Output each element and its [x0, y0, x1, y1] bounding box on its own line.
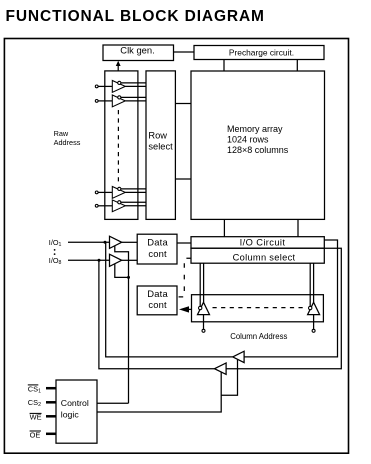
data cont box 1 — [137, 234, 177, 264]
precharge circuit box — [194, 46, 324, 60]
input WE — [30, 413, 56, 422]
junction dot I/O8 — [98, 259, 101, 262]
dashed line between address buffers — [117, 110, 119, 184]
svg-text:Control: Control — [61, 398, 89, 408]
wire data cont 1 to I/O circuit — [177, 242, 191, 244]
svg-text:CS2: CS2 — [28, 398, 41, 408]
wire memory to I/O circuit right stub — [297, 219, 299, 237]
svg-text:Column Address: Column Address — [230, 332, 287, 341]
wire column select right to output buffer B — [226, 248, 341, 369]
wire memory to I/O circuit left stub — [223, 219, 225, 237]
svg-text:Address: Address — [54, 138, 81, 147]
svg-text:WE: WE — [30, 413, 42, 422]
arrow column address to data cont 2 — [179, 306, 192, 312]
address buffer T4 — [95, 200, 146, 212]
svg-text:CS1: CS1 — [28, 384, 41, 394]
column address box — [192, 295, 324, 322]
svg-text:Row: Row — [148, 131, 167, 141]
svg-text:I/O Circuit: I/O Circuit — [240, 237, 286, 247]
dashed wire column select to data cont 2 — [178, 258, 192, 297]
column buffer C2 — [308, 263, 320, 332]
svg-text:Raw: Raw — [54, 129, 69, 138]
svg-text:Data: Data — [147, 236, 168, 247]
address buffer T3 — [95, 187, 146, 199]
svg-text:OE: OE — [30, 430, 41, 439]
dots between I/O labels — [54, 249, 56, 255]
wire row select to memory lower — [176, 178, 191, 180]
row select box — [146, 71, 175, 220]
wire tap from U2 to control line — [115, 264, 130, 279]
input CS1 — [28, 384, 56, 394]
memory array box — [191, 71, 325, 219]
address buffer T1 — [95, 81, 146, 93]
svg-text:Memory array: Memory array — [227, 124, 283, 134]
wire arrow up into clk gen — [116, 61, 121, 71]
wire I/O circuit right to output buffer A — [244, 240, 337, 357]
svg-text:cont: cont — [148, 299, 167, 310]
label Raw Address — [54, 129, 81, 147]
svg-text:Precharge circuit.: Precharge circuit. — [229, 47, 294, 57]
wire tap from U1 to control line — [115, 246, 129, 403]
svg-text:128×8 columns: 128×8 columns — [227, 145, 289, 155]
wire clkgen to precharge — [174, 51, 195, 53]
svg-text:1024 rows: 1024 rows — [227, 134, 269, 144]
svg-text:logic: logic — [61, 409, 80, 419]
column select box — [191, 248, 324, 263]
dashed line between column buffers — [213, 307, 307, 309]
output buffer B — [215, 363, 227, 374]
input buffer U1 — [110, 236, 138, 248]
svg-text:Column select: Column select — [233, 253, 296, 263]
column buffer C1 — [198, 263, 210, 332]
I/O circuit box — [191, 237, 324, 249]
wire I/O8 input — [68, 259, 110, 261]
row address buffer box — [105, 71, 138, 220]
control logic box — [56, 380, 97, 443]
svg-text:Clk gen.: Clk gen. — [120, 45, 154, 56]
wire precharge to memory right stub — [296, 60, 298, 72]
svg-text:select: select — [148, 142, 173, 152]
clock generator box — [103, 45, 174, 61]
svg-text:Data: Data — [147, 288, 168, 299]
wire row select to memory upper — [176, 103, 191, 105]
svg-text:cont: cont — [148, 248, 167, 259]
svg-text:I/O8: I/O8 — [49, 256, 62, 266]
svg-text:I/O1: I/O1 — [49, 238, 62, 248]
wire enable tap buffer A — [221, 360, 237, 396]
svg-text:FUNCTIONAL BLOCK DIAGRAM: FUNCTIONAL BLOCK DIAGRAM — [6, 8, 265, 25]
input buffer U2 — [110, 254, 138, 266]
data cont box 2 — [137, 286, 177, 315]
output buffer A — [233, 351, 244, 362]
input OE — [30, 430, 56, 439]
input CS2 — [28, 398, 56, 408]
wire output buffer B to I/O8 — [99, 260, 215, 368]
wire I/O1 input — [68, 241, 110, 243]
address buffer T2 — [95, 95, 146, 107]
wire output buffer A to I/O1 — [106, 242, 233, 357]
wire enable tap buffer B to control logic — [97, 372, 221, 412]
junction dot I/O1 — [104, 241, 107, 244]
wire control logic to input buffers — [97, 402, 129, 404]
wire precharge to memory left stub — [223, 60, 225, 72]
